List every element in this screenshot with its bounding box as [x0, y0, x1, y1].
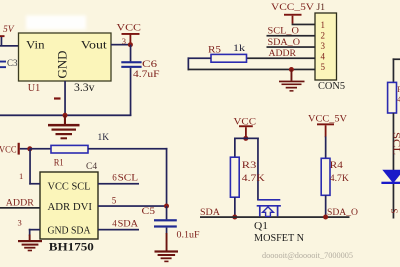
svg-text:3: 3 [18, 217, 22, 227]
capacitor C6 [121, 45, 159, 116]
wire Vout to node [111, 44, 131, 46]
svg-text:SCL: SCL [390, 132, 400, 155]
junction pin5 node [289, 67, 294, 72]
svg-text:R3: R3 [242, 161, 257, 171]
wire node to R1 [30, 148, 51, 150]
resistor R (right, cut) [388, 82, 397, 113]
svg-text:Q1: Q1 [254, 220, 268, 232]
svg-text:BH1750: BH1750 [49, 239, 94, 253]
power port VCC [117, 24, 142, 45]
svg-text:1: 1 [19, 171, 23, 181]
svg-text:SDA: SDA [118, 220, 139, 230]
wire ADDR [0, 207, 40, 209]
junction SDA_O node [323, 215, 328, 220]
resistor R3 [230, 157, 265, 197]
wire R1 to vertical [88, 148, 168, 150]
svg-text:VCC SCL: VCC SCL [48, 181, 91, 193]
svg-text:2: 2 [321, 31, 326, 41]
power port VCC_5V (R4) [308, 115, 347, 138]
svg-text:4: 4 [321, 52, 326, 62]
svg-text:dooooit@dooooit_7000005: dooooit@dooooit_7000005 [262, 251, 353, 260]
resistor R1 [51, 133, 109, 169]
svg-text:U1: U1 [28, 83, 41, 94]
svg-text:0.1uF: 0.1uF [177, 230, 200, 240]
wire R3 to SDA row [234, 197, 236, 217]
U1 GND pin wire [64, 81, 66, 116]
svg-text:C6: C6 [142, 60, 157, 70]
svg-text:ADR DVI: ADR DVI [48, 201, 93, 213]
svg-text:5: 5 [112, 195, 117, 205]
wire pin4 [247, 57, 316, 59]
svg-text:Vin: Vin [26, 38, 45, 52]
svg-text:VCC: VCC [0, 146, 17, 156]
svg-text:5: 5 [321, 62, 326, 72]
svg-text:1K: 1K [98, 133, 110, 143]
svg-text:6: 6 [112, 173, 117, 183]
wire R4 to SDA_O row [325, 195, 327, 217]
wire VCC_5V to R4 [325, 137, 327, 159]
svg-text:1: 1 [321, 20, 326, 30]
resistor R5 [208, 44, 247, 62]
svg-text:S: S [389, 209, 399, 214]
ground (C5) [155, 250, 179, 262]
svg-text:3: 3 [122, 36, 126, 46]
svg-text:SCL: SCL [118, 174, 139, 184]
ground (J1 pin5) [279, 70, 305, 92]
junction Vout node [128, 42, 133, 47]
svg-text:C3: C3 [7, 58, 18, 68]
power port VCC (BH1750) [0, 143, 30, 156]
junction VCC node [27, 146, 32, 151]
wire pin1 [292, 24, 315, 26]
ground (BH1750 pin3) [18, 240, 42, 251]
wire vertical down to DVI row [166, 148, 168, 207]
svg-text:4.7uF: 4.7uF [133, 70, 160, 80]
svg-text:4.7K: 4.7K [330, 174, 349, 184]
svg-text:4: 4 [112, 219, 117, 229]
svg-text:CON5: CON5 [318, 81, 345, 92]
pin 5 DVI wire [98, 205, 167, 207]
svg-text:1k: 1k [233, 44, 245, 54]
junction ground rail [63, 113, 68, 118]
svg-text:SDA_O: SDA_O [327, 208, 358, 218]
wire VCC branches [234, 138, 259, 140]
wire pin2 [267, 35, 316, 37]
wire 5V to Vin [0, 45, 19, 47]
wire SDA / SDA_O row [200, 216, 350, 218]
svg-text:C4: C4 [86, 162, 97, 172]
capacitor C5 [142, 206, 200, 251]
mosfet Q1 [257, 200, 281, 217]
wire pin3 [267, 46, 316, 48]
wire resistor to LED [393, 113, 395, 170]
regulator U1 [19, 33, 112, 94]
pin 4 SDA stub [98, 229, 139, 231]
led D (cut at edge) [381, 170, 400, 219]
ground (U1) [48, 115, 80, 139]
pin 6 SCL stub [98, 183, 139, 185]
svg-text:5V: 5V [3, 25, 15, 35]
svg-text:3.3v: 3.3v [74, 82, 95, 94]
power port VCC (level shifter) [234, 118, 257, 139]
white patch above U1 [26, 16, 86, 30]
power port VCC_5V (J1) [271, 3, 314, 24]
capacitor C3 [0, 58, 18, 68]
svg-text:4.7K: 4.7K [242, 174, 265, 184]
svg-text:VCC: VCC [117, 24, 142, 34]
svg-text:Vout: Vout [81, 38, 108, 52]
minus mark [54, 97, 61, 99]
resistor R4 [321, 158, 349, 195]
wire R5 left + down [188, 57, 212, 59]
svg-text:R1: R1 [54, 159, 64, 169]
wire ground rail [0, 114, 131, 116]
pin 3 wire [29, 229, 40, 231]
svg-text:GND: GND [56, 51, 70, 79]
svg-text:ADDR: ADDR [6, 198, 35, 208]
sensor BH1750 [40, 172, 98, 253]
svg-text:C5: C5 [142, 207, 156, 217]
svg-text:MOSFET N: MOSFET N [254, 233, 304, 244]
svg-text:VCC_5V: VCC_5V [308, 115, 347, 125]
svg-text:J1: J1 [317, 3, 326, 13]
wire pin5 [188, 69, 316, 71]
connector J1 [315, 3, 345, 92]
svg-text:GND SDA: GND SDA [48, 225, 91, 237]
svg-text:R4: R4 [330, 161, 343, 171]
wire right column top [393, 58, 400, 60]
junction SDA node [232, 215, 237, 220]
svg-text:3: 3 [321, 41, 326, 51]
junction VCC node [243, 136, 248, 141]
svg-text:VCC_5V: VCC_5V [271, 3, 314, 13]
pin 1 wire [29, 149, 31, 185]
svg-text:R5: R5 [208, 45, 221, 55]
junction DVI node [164, 204, 169, 209]
